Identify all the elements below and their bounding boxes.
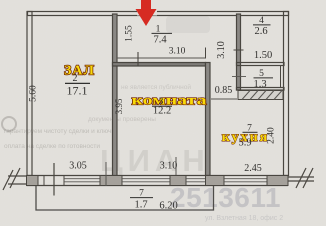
- door leaf tick in wall B: [137, 52, 139, 66]
- room 5 underline: [254, 77, 274, 79]
- red entrance arrow: [136, 0, 157, 26]
- faint smudge patch: [166, 16, 210, 33]
- balcony underline: [130, 197, 153, 199]
- outer wall right: [284, 12, 289, 176]
- pier 1: [27, 176, 39, 186]
- corridor dim line: [117, 57, 205, 59]
- wall D (коридор | санузел): [237, 14, 241, 90]
- wall A (зал | коридор/комната): [113, 14, 118, 176]
- watermark logo circle: [2, 117, 16, 131]
- pier 5: [267, 176, 288, 186]
- balcony door segment: [43, 176, 45, 186]
- hatched duct band above kitchen: [238, 91, 283, 100]
- dim line 0.85 passage: [211, 98, 237, 100]
- balcony door leaf: [53, 163, 55, 196]
- kitchen underline: [243, 131, 258, 133]
- room 1 underline: [152, 32, 173, 34]
- toilet inner right line: [280, 66, 282, 88]
- room 2 underline: [65, 82, 90, 84]
- entrance door gap in top wall: [137, 10, 157, 16]
- dim end tick at wall C: [205, 48, 207, 59]
- pier 2: [100, 176, 122, 186]
- wall B (коридор | комната): [113, 63, 206, 67]
- pier 3: [170, 176, 186, 186]
- bottom wall band top line: [27, 175, 289, 177]
- wall E (ванная 4 низ): [237, 63, 285, 66]
- right break symbol: [288, 168, 314, 188]
- room 4 underline: [253, 24, 271, 26]
- left break symbol: [3, 168, 27, 190]
- dim extension tick x176: [175, 157, 177, 175]
- window 3 glazing: [186, 179, 206, 182]
- door tick on wall D (bathroom): [234, 49, 244, 51]
- window 2 glazing: [122, 179, 170, 182]
- window 1 glazing: [64, 179, 100, 182]
- balcony outline: [36, 186, 214, 210]
- wall F (туалет 5 низ): [237, 88, 285, 91]
- dim tick at y76: [232, 76, 246, 78]
- outer wall top: [28, 12, 289, 16]
- wall C (комната | кухня): [206, 63, 211, 176]
- window 4 glazing (кухня): [224, 179, 267, 182]
- outer wall left: [27, 12, 32, 176]
- bottom wall band bottom line: [27, 185, 289, 187]
- pier 4 (под стеной C): [206, 176, 225, 186]
- room 3 underline: [152, 105, 172, 107]
- dim extension tick x106: [105, 162, 107, 186]
